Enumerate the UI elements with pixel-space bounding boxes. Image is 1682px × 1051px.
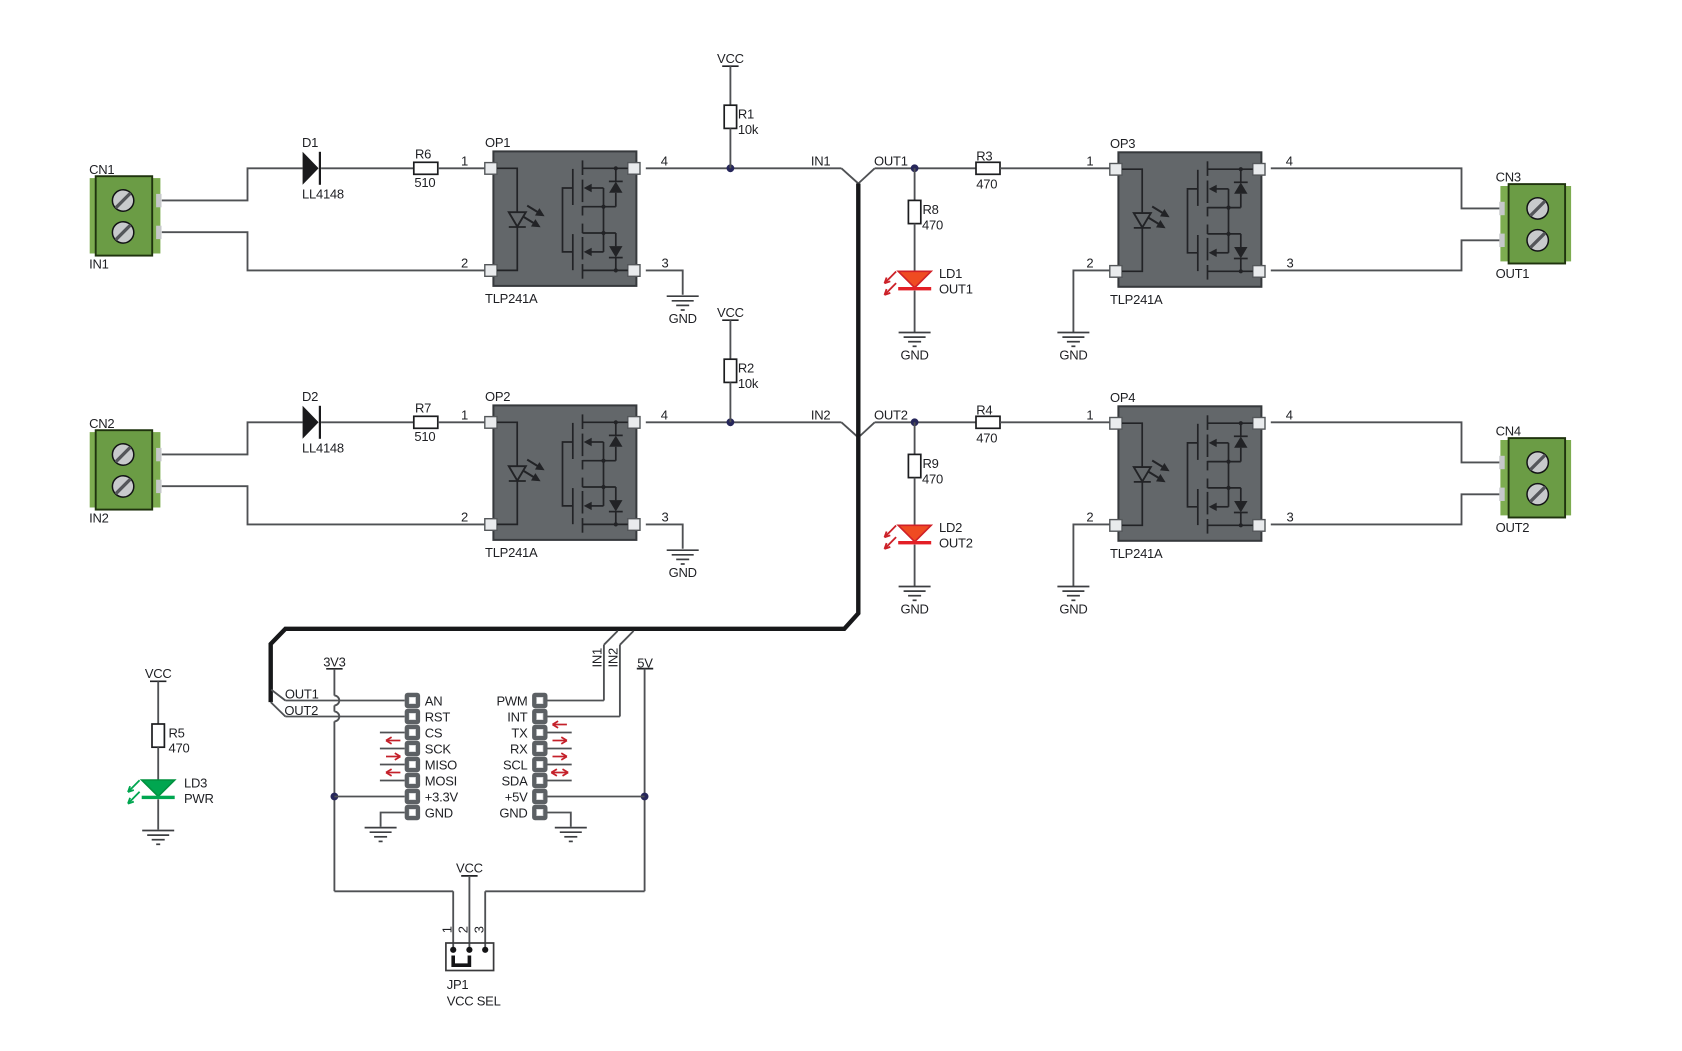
svg-text:GND: GND — [1059, 348, 1087, 363]
svg-text:IN1: IN1 — [89, 257, 109, 272]
svg-text:GND: GND — [425, 805, 453, 820]
svg-text:GND: GND — [1059, 602, 1087, 617]
svg-text:1: 1 — [440, 926, 455, 933]
svg-text:1: 1 — [461, 408, 468, 423]
svg-text:TLP241A: TLP241A — [1110, 292, 1163, 307]
svg-text:470: 470 — [922, 472, 943, 487]
svg-text:OP4: OP4 — [1110, 390, 1135, 405]
svg-text:R5: R5 — [169, 725, 185, 740]
svg-text:D1: D1 — [302, 135, 318, 150]
svg-text:OUT2: OUT2 — [284, 703, 318, 718]
svg-text:IN2: IN2 — [89, 511, 109, 526]
svg-text:470: 470 — [976, 177, 997, 192]
svg-text:510: 510 — [414, 175, 435, 190]
svg-text:OUT1: OUT1 — [285, 686, 319, 701]
svg-text:IN2: IN2 — [811, 408, 831, 423]
svg-text:470: 470 — [169, 740, 190, 755]
svg-text:PWR: PWR — [184, 791, 214, 806]
svg-text:TX: TX — [511, 725, 528, 740]
svg-text:SCK: SCK — [425, 741, 452, 756]
svg-text:GND: GND — [669, 311, 697, 326]
svg-text:3V3: 3V3 — [323, 655, 345, 670]
svg-text:VCC: VCC — [717, 305, 744, 320]
svg-text:RX: RX — [510, 741, 528, 756]
svg-text:LD3: LD3 — [184, 776, 207, 791]
svg-text:3: 3 — [1287, 256, 1294, 271]
svg-text:IN2: IN2 — [606, 648, 621, 668]
svg-text:2: 2 — [456, 926, 471, 933]
svg-text:470: 470 — [922, 218, 943, 233]
svg-text:OUT2: OUT2 — [939, 535, 973, 550]
svg-text:OP1: OP1 — [485, 135, 510, 150]
svg-text:3: 3 — [1287, 510, 1294, 525]
svg-text:R9: R9 — [923, 456, 939, 471]
svg-text:LD1: LD1 — [939, 266, 962, 281]
svg-text:R1: R1 — [738, 107, 754, 122]
svg-text:IN1: IN1 — [811, 154, 831, 169]
svg-text:INT: INT — [507, 709, 528, 724]
svg-text:10k: 10k — [738, 376, 759, 391]
svg-text:4: 4 — [1286, 154, 1293, 169]
svg-text:CN2: CN2 — [89, 416, 114, 431]
svg-text:VCC SEL: VCC SEL — [447, 994, 501, 1009]
svg-text:470: 470 — [976, 431, 997, 446]
svg-text:R8: R8 — [923, 202, 939, 217]
svg-text:GND: GND — [669, 565, 697, 580]
svg-text:MOSI: MOSI — [425, 773, 457, 788]
svg-text:3: 3 — [662, 510, 669, 525]
svg-text:3: 3 — [471, 926, 486, 933]
svg-text:OUT2: OUT2 — [1496, 520, 1530, 535]
svg-text:3: 3 — [662, 256, 669, 271]
svg-text:R3: R3 — [976, 148, 992, 163]
svg-text:R6: R6 — [415, 146, 431, 161]
svg-text:10k: 10k — [738, 122, 759, 137]
svg-text:OUT1: OUT1 — [1496, 266, 1530, 281]
svg-text:GND: GND — [499, 805, 527, 820]
svg-text:2: 2 — [461, 256, 468, 271]
svg-text:PWM: PWM — [496, 693, 527, 708]
svg-text:IN1: IN1 — [590, 648, 605, 668]
svg-text:2: 2 — [1086, 256, 1093, 271]
svg-text:OUT1: OUT1 — [874, 154, 908, 169]
svg-text:LD2: LD2 — [939, 520, 962, 535]
svg-text:+3.3V: +3.3V — [425, 789, 459, 804]
svg-text:CN1: CN1 — [89, 162, 114, 177]
svg-text:SDA: SDA — [502, 773, 529, 788]
svg-text:1: 1 — [1086, 408, 1093, 423]
svg-text:VCC: VCC — [717, 51, 744, 66]
svg-text:MISO: MISO — [425, 757, 457, 772]
svg-text:2: 2 — [461, 510, 468, 525]
svg-text:OP3: OP3 — [1110, 136, 1135, 151]
svg-text:TLP241A: TLP241A — [1110, 546, 1163, 561]
svg-text:R2: R2 — [738, 361, 754, 376]
svg-text:+5V: +5V — [505, 789, 528, 804]
svg-text:CS: CS — [425, 725, 443, 740]
svg-text:OUT1: OUT1 — [939, 281, 973, 296]
svg-text:TLP241A: TLP241A — [485, 291, 538, 306]
svg-text:R4: R4 — [976, 402, 992, 417]
svg-text:CN4: CN4 — [1496, 424, 1521, 439]
svg-text:D2: D2 — [302, 389, 318, 404]
svg-text:RST: RST — [425, 709, 451, 724]
svg-text:4: 4 — [661, 408, 668, 423]
svg-text:4: 4 — [1286, 408, 1293, 423]
svg-text:GND: GND — [901, 348, 929, 363]
svg-text:OUT2: OUT2 — [874, 408, 908, 423]
svg-text:1: 1 — [1086, 154, 1093, 169]
svg-text:LL4148: LL4148 — [302, 440, 344, 455]
svg-text:R7: R7 — [415, 400, 431, 415]
svg-text:4: 4 — [661, 154, 668, 169]
svg-text:CN3: CN3 — [1496, 170, 1521, 185]
svg-text:JP1: JP1 — [447, 977, 469, 992]
svg-text:OP2: OP2 — [485, 389, 510, 404]
svg-text:LL4148: LL4148 — [302, 186, 344, 201]
svg-text:1: 1 — [461, 154, 468, 169]
svg-text:510: 510 — [414, 429, 435, 444]
svg-text:VCC: VCC — [145, 666, 172, 681]
svg-text:AN: AN — [425, 693, 443, 708]
svg-text:GND: GND — [901, 602, 929, 617]
svg-text:SCL: SCL — [503, 757, 528, 772]
svg-text:2: 2 — [1086, 510, 1093, 525]
svg-text:TLP241A: TLP241A — [485, 545, 538, 560]
svg-text:VCC: VCC — [456, 861, 483, 876]
